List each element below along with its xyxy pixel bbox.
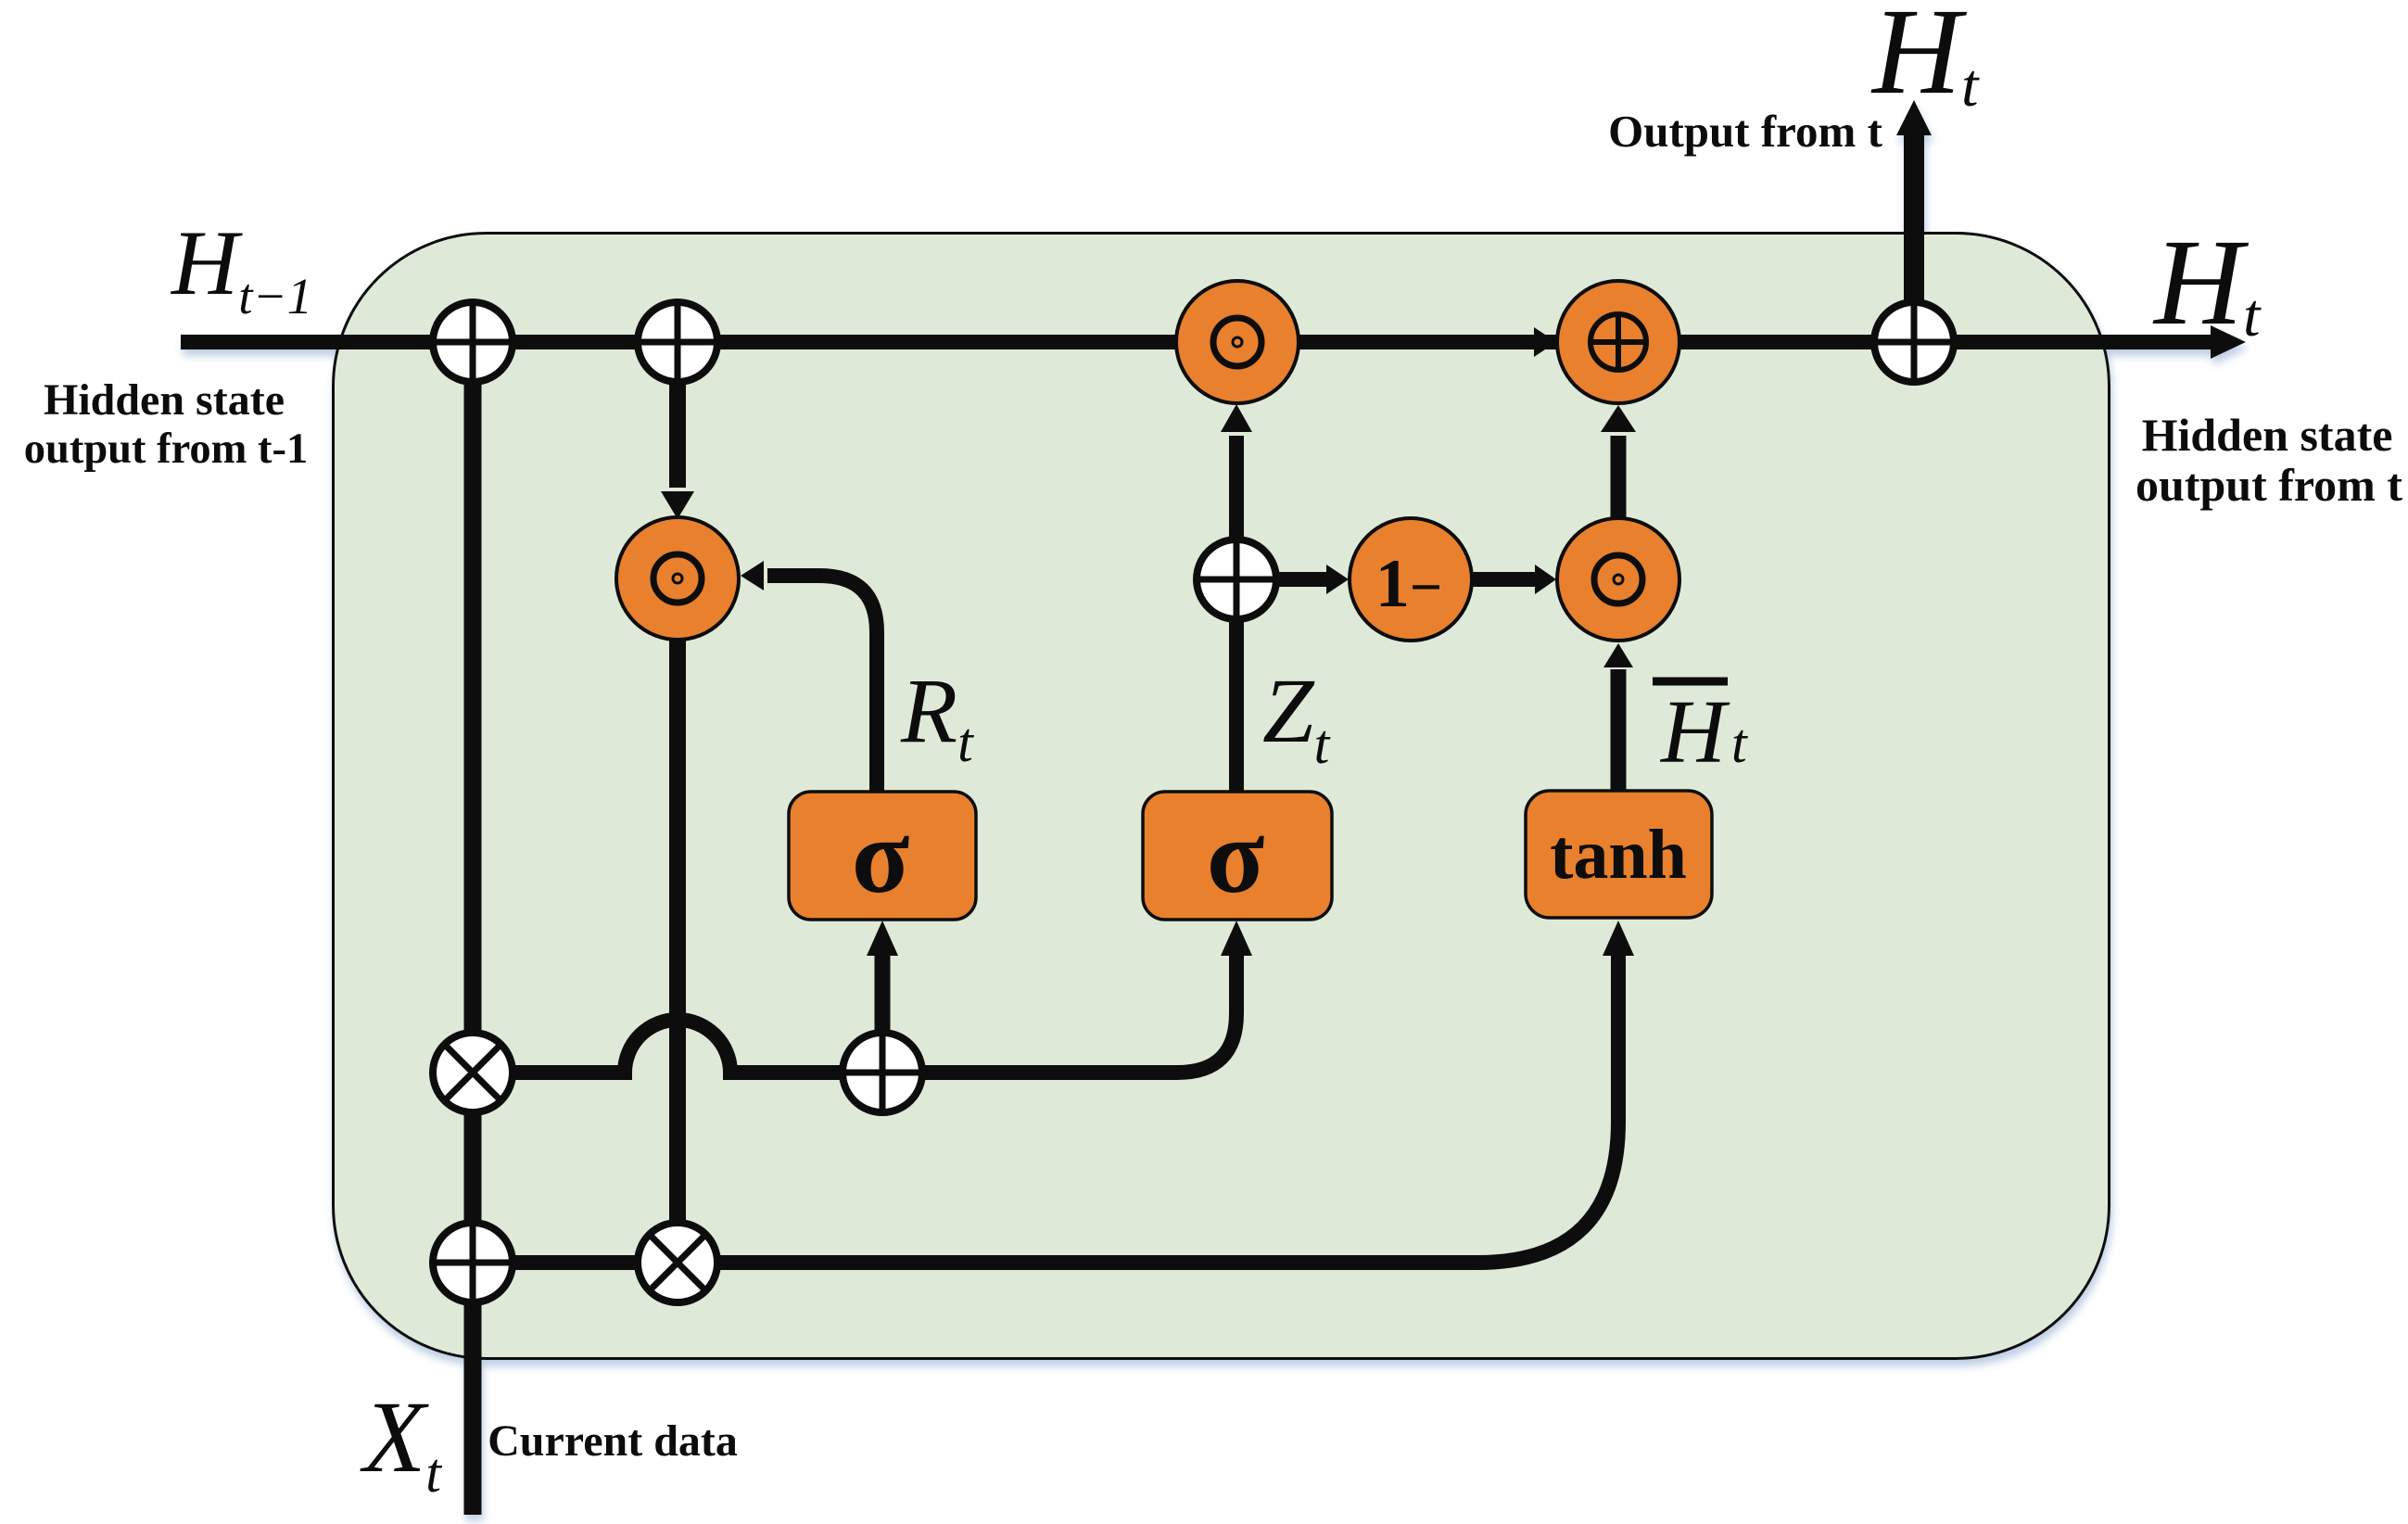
node: orange 1- circle (1522,625) [1350,518,1472,641]
wire: vertical column x=731 upper (to reset gate mult) [669,342,686,488]
svg-text:Hidden state: Hidden state [44,375,285,425]
wire: sigma R output curve up-left into reset mult, label Rt [767,576,877,792]
wire: tanh output up into Hadamard H-bar [1611,669,1627,792]
svg-text:σ: σ [852,797,910,915]
svg-text:Xt: Xt [360,1380,442,1504]
node: white plus circle c1 on bus (510,369) [433,302,513,382]
svg-text:t: t [1731,713,1748,774]
node: white plus circle mid (952,1157) [843,1033,922,1112]
node: white plus circle on bus right (2065,369) [1874,302,1954,382]
gate: sigma Z box [1143,792,1332,920]
svg-text:Ht: Ht [2152,213,2262,350]
node: white plus circle c2 on bus (731,369) [638,302,717,382]
svg-text:H: H [1659,682,1730,781]
node: white plus circle bottom (510,1362) [433,1223,513,1302]
node: update-gate Hadamard multiply on bus (1335,369) [1176,281,1299,403]
svg-text:Ht: Ht [1870,0,1980,120]
wire: H(t) output arrowhead right [2211,325,2246,359]
wire: bottom row from plus to X-mult [473,1255,638,1270]
wire: middle row from X-mult to plus junction with hop over x=731 [473,1020,843,1073]
svg-text:Ht−1: Ht−1 [170,211,312,324]
node: orange plus adder on bus (1746,369) [1557,281,1679,403]
wire: arrow from middle plus junction up into sigma R [875,953,891,1033]
arrowhead into reset-mult circle top [661,491,694,519]
wire: sigma Z output vertical x=1334 up to plus junction [1229,619,1244,792]
svg-text:Output from t: Output from t [1608,106,1883,157]
GRU cell body [334,234,2110,1359]
wire: Hadamard H-bar up into orange plus on bus [1611,436,1627,518]
gate: tanh box [1526,791,1712,918]
wire: H(t-1) input / top hidden-state bus y=369 [181,335,2215,349]
svg-text:output from t-1: output from t-1 [24,425,309,473]
svg-text:Hidden state: Hidden state [2142,409,2393,461]
node: orange Hadamard H-bar apply (1746,625) [1557,518,1679,641]
wire: middle row to Z sigma with curve up [922,953,1236,1073]
svg-text:σ: σ [1207,797,1265,915]
wire: plus junction up to Hadamard on bus with arrowhead [1229,436,1244,540]
node: white multiply circle X bottom (731,1362) [638,1223,717,1302]
svg-text:Current data: Current data [488,1416,738,1466]
svg-text:1−: 1− [1375,546,1442,622]
node: white plus circle Z junction (1334,625) [1197,540,1276,619]
svg-text:output from t: output from t [2136,459,2402,511]
wire: arrow from 1- node to Hadamard H-bar [1472,572,1537,587]
gate: sigma R box [789,792,976,920]
node: white multiply circle X (510,1157) [433,1033,513,1112]
arrowhead into orange plus node on top bus [1534,327,1556,357]
wire: vertical column x=731 lower [669,638,686,1224]
wire: arrow from Z-plus junction to 1- node [1276,572,1328,587]
wire: H(t) output vertical arrow x=2065 [1904,135,1924,302]
wire: bottom row long run and curve up into tanh [717,953,1618,1263]
svg-text:tanh: tanh [1550,816,1687,894]
wire: X(t) input vertical column x=510 [464,342,482,1515]
node: reset-gate Hadamard multiply (731,624) [616,517,739,640]
